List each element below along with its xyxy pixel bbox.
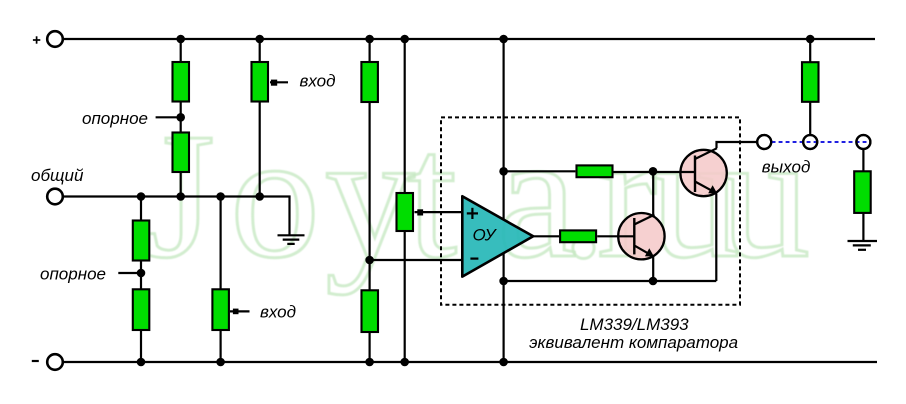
svg-text:вход: вход <box>260 303 296 322</box>
resistor R11 <box>854 171 871 213</box>
ground G1 <box>278 235 305 244</box>
wire middle common rail <box>63 197 289 236</box>
terminal minus <box>47 354 63 370</box>
svg-text:эквивалент компаратора: эквивалент компаратора <box>529 333 738 352</box>
svg-text:опорное: опорное <box>82 109 148 128</box>
node emitter bus x653 <box>649 277 658 286</box>
node bottom rail x370 <box>365 358 374 367</box>
resistor R1 <box>173 62 190 102</box>
resistor R5 <box>397 193 414 231</box>
node middle rail x260 <box>255 192 264 201</box>
node top rail x260 <box>255 35 264 44</box>
node top rail x370 <box>365 35 374 44</box>
wire supply tap to R12 <box>504 170 576 172</box>
resistor R2 <box>173 133 190 173</box>
svg-text:опорное: опорное <box>40 265 106 284</box>
node bottom rail x504 <box>499 358 508 367</box>
wire inverting input <box>370 259 463 261</box>
wire vertical supply x504 <box>503 39 505 220</box>
terminal common <box>47 189 63 205</box>
node Q1 base / Q2 collector <box>649 167 658 176</box>
wire non-inverting input with arrow <box>415 209 463 215</box>
node inverting tap <box>365 256 374 265</box>
resistor R4 <box>361 62 378 102</box>
node top rail x181 <box>176 35 185 44</box>
op-amp U1 <box>462 196 533 276</box>
wire Q2 emitter down <box>652 256 654 282</box>
node bottom rail x405 <box>400 358 409 367</box>
wire blue dashed output link <box>772 141 867 143</box>
node base bus x504 <box>499 167 508 176</box>
wire Q1 emitter down <box>715 194 717 282</box>
resistor R8 <box>212 289 229 330</box>
wire vertical input upper <box>259 39 261 197</box>
ground G2 <box>848 241 878 250</box>
output terminal A <box>757 135 771 149</box>
resistor R7 <box>133 289 150 330</box>
node top rail x405 <box>400 35 409 44</box>
node bottom rail x141 <box>137 358 146 367</box>
wire dash to lower reference node <box>118 272 137 274</box>
resistor R6 <box>133 221 150 261</box>
wire emitter bus <box>504 280 717 282</box>
node bottom rail x221 <box>216 358 225 367</box>
resistor R9 <box>362 290 379 332</box>
node middle rail x141 <box>137 192 146 201</box>
svg-text:выход: выход <box>762 158 811 177</box>
node middle rail x181 <box>176 192 185 201</box>
resistor R13 <box>560 230 596 242</box>
output terminal rings redraw <box>757 135 771 149</box>
wire Q1 collector to output <box>717 142 758 148</box>
resistor R3 <box>252 62 269 102</box>
wire vertical input lower <box>220 197 222 363</box>
output terminal C <box>856 135 870 149</box>
node reference lower <box>137 269 146 278</box>
svg-text:общий: общий <box>31 166 84 185</box>
output terminal B <box>803 135 817 149</box>
wire bottom rail <box>63 361 877 363</box>
transistor Q2 <box>597 213 664 259</box>
wire pull-up right <box>809 39 811 135</box>
node top rail x504 <box>499 35 508 44</box>
svg-text:ОУ: ОУ <box>473 225 498 244</box>
wire top rail <box>63 38 875 40</box>
resistor R10 <box>802 62 819 102</box>
terminal plus <box>47 31 63 47</box>
wire vertical through resistor x405 <box>404 39 406 362</box>
wire dash to upper reference node <box>156 116 177 118</box>
wire vertical divider chain upper-left <box>180 39 182 197</box>
node reference upper <box>176 113 185 122</box>
svg-text:вход: вход <box>300 71 336 90</box>
wire vertical through resistors x370 <box>369 39 371 362</box>
wire load right <box>862 149 864 241</box>
svg-text:LM339/LM393: LM339/LM393 <box>580 315 689 334</box>
wire op-amp output <box>533 235 559 237</box>
dotted comparator box <box>441 117 740 304</box>
node middle rail x221 <box>216 192 225 201</box>
node emitter bus x504 <box>499 277 508 286</box>
resistor R12 <box>577 165 613 177</box>
wire Q2 collector to node <box>652 171 654 215</box>
transistor Q1 <box>614 148 727 196</box>
wire vertical divider chain lower-left <box>140 197 142 363</box>
node top rail x810 <box>806 35 815 44</box>
